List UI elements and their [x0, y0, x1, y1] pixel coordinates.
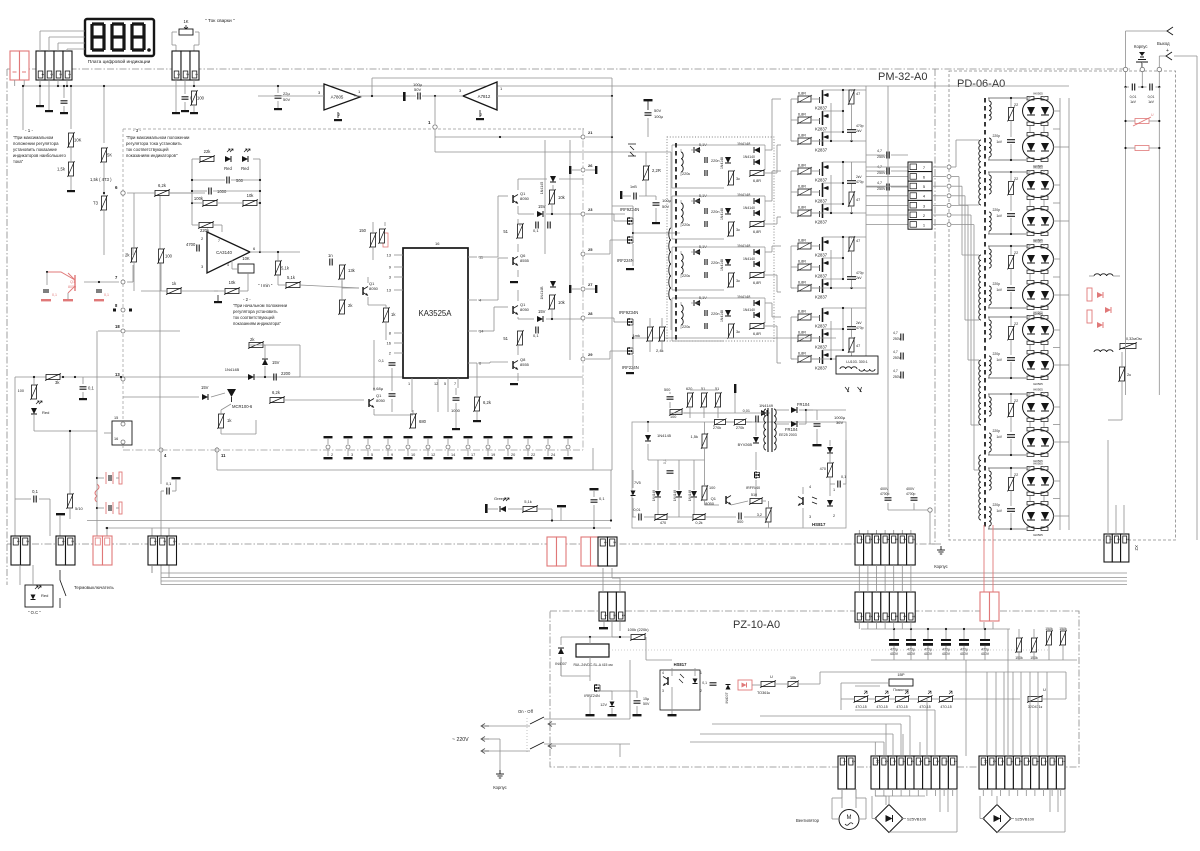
svg-text:0,1: 0,1	[88, 386, 94, 391]
svg-text:17: 17	[471, 453, 475, 457]
svg-text:28: 28	[588, 311, 593, 316]
svg-text:On - Off: On - Off	[518, 709, 534, 714]
svg-text:0,01: 0,01	[743, 409, 750, 413]
svg-text:HS817: HS817	[812, 522, 826, 527]
svg-text:2: 2	[612, 542, 616, 544]
svg-text:K2837: K2837	[815, 253, 828, 258]
svg-text:22k: 22k	[204, 149, 212, 154]
svg-text:100: 100	[18, 389, 24, 393]
svg-text:1nB: 1nB	[630, 185, 637, 189]
svg-text:4: 4	[809, 485, 811, 489]
svg-text:BYV26B: BYV26B	[738, 443, 753, 447]
svg-text:8050: 8050	[705, 501, 715, 506]
svg-text:6,8R: 6,8R	[798, 206, 806, 210]
svg-text:установить показание: установить показание	[13, 147, 58, 152]
svg-text:3: 3	[172, 541, 176, 543]
svg-text:12: 12	[434, 382, 438, 386]
svg-text:IH0505: IH0505	[1033, 382, 1043, 386]
svg-text:250V: 250V	[893, 375, 902, 379]
svg-text:22: 22	[1014, 177, 1018, 181]
svg-text:K2837: K2837	[815, 199, 828, 204]
svg-text:10k: 10k	[247, 193, 255, 198]
svg-text:1: 1	[1108, 539, 1112, 541]
svg-text:ТЗ: ТЗ	[93, 201, 99, 206]
svg-text:220n: 220n	[711, 159, 719, 163]
svg-text:3к: 3к	[736, 330, 740, 334]
svg-text:IH0505: IH0505	[1033, 462, 1043, 466]
svg-text:16: 16	[435, 241, 440, 246]
svg-text:13: 13	[387, 253, 392, 258]
svg-text:1: 1	[195, 74, 199, 76]
svg-text:3: 3	[877, 616, 881, 618]
svg-text:M: M	[847, 815, 852, 821]
svg-text:2: 2	[700, 689, 702, 693]
svg-text:22: 22	[1014, 399, 1018, 403]
svg-text:220n: 220n	[711, 210, 719, 214]
svg-text:220к: 220к	[682, 223, 690, 227]
svg-text:21: 21	[588, 130, 593, 135]
svg-text:IRF224N: IRF224N	[622, 365, 639, 370]
svg-text:400V: 400V	[906, 487, 915, 491]
svg-text:3: 3	[1044, 761, 1048, 763]
svg-text:8: 8	[893, 761, 897, 763]
svg-text:220p: 220p	[992, 503, 1000, 507]
svg-text:1кV: 1кV	[1130, 100, 1136, 104]
svg-text:220p: 220p	[992, 282, 1000, 286]
svg-text:2кV: 2кV	[856, 276, 862, 280]
svg-text:1,5k ( 4ТЗ ): 1,5k ( 4ТЗ )	[90, 177, 112, 182]
svg-text:2: 2	[25, 541, 29, 543]
svg-text:50V: 50V	[643, 702, 650, 706]
svg-text:1кV: 1кV	[996, 214, 1002, 218]
svg-text:2: 2	[612, 615, 616, 617]
svg-text:1кV: 1кV	[996, 140, 1002, 144]
svg-text:1: 1	[408, 382, 410, 386]
svg-text:7: 7	[218, 239, 220, 243]
svg-text:IRF9Z34N: IRF9Z34N	[619, 310, 638, 315]
svg-text:8050: 8050	[520, 196, 530, 201]
svg-text:47О-15: 47О-15	[876, 705, 887, 709]
svg-text:13k: 13k	[348, 268, 356, 273]
svg-text:IH0505: IH0505	[1033, 166, 1043, 170]
svg-text:1N4148: 1N4148	[720, 157, 724, 169]
svg-text:6,8R: 6,8R	[798, 310, 806, 314]
svg-text:Корпус: Корпус	[1134, 44, 1148, 49]
svg-text:0,32мОм: 0,32мОм	[1126, 337, 1142, 341]
svg-text:27: 27	[588, 282, 593, 287]
svg-text:1N4140: 1N4140	[743, 155, 755, 159]
svg-text:IRF224N: IRF224N	[617, 258, 634, 263]
svg-text:500: 500	[236, 178, 244, 183]
svg-text:3: 3	[1125, 539, 1129, 541]
svg-text:1кV: 1кV	[996, 509, 1002, 513]
svg-text:1: 1	[860, 616, 864, 618]
svg-text:регулятора тока установить: регулятора тока установить	[126, 141, 182, 146]
svg-text:3к: 3к	[736, 177, 740, 181]
svg-text:6,8R: 6,8R	[753, 230, 761, 234]
svg-text:47: 47	[856, 239, 860, 243]
svg-text:47О-15: 47О-15	[896, 705, 907, 709]
svg-text:6,8R: 6,8R	[798, 260, 806, 264]
svg-text:6,8R: 6,8R	[798, 281, 806, 285]
svg-text:270k: 270k	[736, 426, 744, 430]
svg-text:ток соответствующей: ток соответствующей	[126, 147, 169, 152]
svg-text:7: 7	[454, 382, 456, 386]
svg-text:6,2k: 6,2k	[483, 400, 492, 405]
svg-text:K2837: K2837	[815, 324, 828, 329]
svg-text:220p: 220p	[992, 352, 1000, 356]
svg-text:8: 8	[1001, 761, 1005, 763]
svg-text:250V: 250V	[877, 187, 886, 191]
svg-text:1N4148: 1N4148	[720, 310, 724, 322]
svg-text:10: 10	[876, 760, 880, 764]
svg-text:250V: 250V	[877, 171, 886, 175]
svg-text:6,8R: 6,8R	[798, 134, 806, 138]
svg-text:Red: Red	[241, 166, 249, 171]
svg-text:0,1: 0,1	[166, 482, 171, 486]
svg-text:0,2k: 0,2k	[695, 521, 702, 525]
svg-text:47О-15: 47О-15	[919, 705, 930, 709]
svg-text:220к: 220к	[682, 274, 690, 278]
svg-text:7: 7	[1009, 761, 1013, 763]
svg-text:3к: 3к	[736, 228, 740, 232]
svg-text:- 1 -: - 1 -	[25, 128, 34, 133]
svg-text:1N4149: 1N4149	[759, 403, 774, 408]
svg-text:4: 4	[885, 616, 889, 618]
svg-text:8555: 8555	[520, 258, 530, 263]
svg-text:"При максимальном положении: "При максимальном положении	[126, 135, 190, 140]
svg-text:RUL-24VDC-SL-A 415 ом: RUL-24VDC-SL-A 415 ом	[573, 663, 613, 667]
svg-text:10K: 10K	[74, 138, 82, 143]
svg-text:470p: 470p	[856, 180, 864, 184]
svg-text:3: 3	[351, 453, 353, 457]
svg-text:показаниям индикаторов": показаниям индикаторов"	[126, 153, 178, 158]
svg-text:10k: 10k	[790, 676, 796, 680]
svg-text:8050: 8050	[520, 307, 530, 312]
svg-text:- 2 -: - 2 -	[243, 297, 251, 302]
svg-text:4700: 4700	[186, 242, 196, 247]
svg-text:0,1: 0,1	[533, 333, 539, 338]
svg-text:6,8R: 6,8R	[798, 92, 806, 96]
svg-text:2кV: 2кV	[856, 175, 862, 179]
svg-text:Red: Red	[41, 593, 48, 598]
svg-text:47: 47	[856, 198, 860, 202]
svg-text:47: 47	[856, 344, 860, 348]
svg-text:0,01: 0,01	[634, 508, 641, 512]
svg-text:100: 100	[709, 486, 715, 490]
svg-text:3к: 3к	[736, 279, 740, 283]
svg-text:"При начальном положении: "При начальном положении	[233, 303, 288, 308]
svg-text:50V: 50V	[662, 204, 669, 209]
svg-text:0,1: 0,1	[378, 358, 384, 363]
svg-text:5/10: 5/10	[75, 506, 84, 511]
svg-text:0,1: 0,1	[32, 489, 38, 494]
svg-text:220p: 220p	[992, 208, 1000, 212]
svg-text:U: U	[1043, 687, 1046, 692]
svg-text:470p: 470p	[856, 124, 864, 128]
svg-text:25: 25	[588, 247, 593, 252]
svg-text:~ 220V: ~ 220V	[452, 737, 469, 743]
svg-text:6: 6	[910, 761, 914, 763]
svg-text:IRFR/40: IRFR/40	[746, 486, 760, 490]
svg-text:2: 2	[868, 539, 872, 541]
svg-text:1N4148: 1N4148	[720, 208, 724, 220]
svg-text:Позистор: Позистор	[893, 688, 909, 692]
svg-text:2: 2	[944, 761, 948, 763]
svg-text:150: 150	[359, 228, 367, 233]
svg-text:22: 22	[1014, 103, 1018, 107]
svg-text:3: 3	[809, 515, 811, 519]
svg-text:3: 3	[936, 761, 940, 763]
svg-text:6,8R: 6,8R	[753, 281, 761, 285]
svg-text:9: 9	[884, 761, 888, 763]
svg-text:K2837: K2837	[815, 274, 828, 279]
svg-text:4,7: 4,7	[893, 369, 898, 373]
svg-text:1000: 1000	[217, 189, 227, 194]
svg-text:15V: 15V	[272, 360, 280, 365]
svg-text:220n: 220n	[711, 261, 719, 265]
svg-text:10k: 10k	[558, 195, 566, 200]
svg-text:47О-15: 47О-15	[855, 705, 866, 709]
svg-text:2,4k: 2,4k	[656, 348, 664, 353]
svg-text:1N4148: 1N4148	[737, 193, 750, 197]
svg-text:A7812: A7812	[478, 94, 491, 99]
svg-text:5,1k: 5,1k	[287, 275, 296, 280]
svg-text:51: 51	[503, 336, 508, 341]
svg-text:500: 500	[737, 520, 743, 524]
svg-text:100: 100	[197, 96, 205, 101]
svg-text:1: 1	[700, 671, 702, 675]
svg-text:K2837: K2837	[815, 295, 828, 300]
svg-text:2: 2	[868, 616, 872, 618]
svg-text:5К: 5К	[107, 153, 112, 158]
svg-text:4,7: 4,7	[877, 181, 882, 185]
svg-text:S25VB100: S25VB100	[1015, 817, 1035, 822]
svg-text:0,1: 0,1	[702, 681, 707, 685]
svg-text:3,2: 3,2	[757, 513, 762, 517]
svg-text:23: 23	[588, 207, 593, 212]
svg-text:1,5k: 1,5k	[57, 167, 66, 172]
svg-text:14: 14	[451, 453, 455, 457]
svg-text:IH0505: IH0505	[1033, 240, 1043, 244]
svg-text:100: 100	[670, 415, 676, 419]
svg-text:FR104: FR104	[797, 402, 810, 407]
svg-text:7: 7	[911, 539, 915, 541]
svg-text:6: 6	[903, 616, 907, 618]
svg-text:6,8R: 6,8R	[798, 239, 806, 243]
svg-text:10: 10	[984, 760, 988, 764]
svg-text:IH0505: IH0505	[1033, 533, 1043, 537]
svg-text:ЕЕ25 2003: ЕЕ25 2003	[779, 433, 797, 437]
svg-text:2: 2	[331, 453, 333, 457]
svg-text:2: 2	[162, 541, 166, 543]
svg-text:MCR100-6: MCR100-6	[232, 404, 253, 409]
svg-text:3: 3	[50, 74, 54, 76]
svg-text:12: 12	[431, 453, 435, 457]
svg-text:Плата цифровой индикации: Плата цифровой индикации	[88, 58, 151, 65]
svg-text:220n: 220n	[711, 312, 719, 316]
svg-text:1K: 1K	[183, 19, 188, 24]
svg-text:U: U	[770, 674, 773, 679]
svg-text:1кV: 1кV	[996, 288, 1002, 292]
svg-text:100: 100	[165, 254, 173, 259]
svg-text:4,7: 4,7	[877, 149, 882, 153]
svg-text:1n: 1n	[328, 253, 333, 258]
svg-text:4: 4	[927, 761, 931, 763]
svg-text:4: 4	[662, 671, 664, 675]
svg-text:6,2k: 6,2k	[272, 390, 281, 395]
svg-text:K2837: K2837	[815, 148, 828, 153]
svg-text:4700p: 4700p	[906, 492, 916, 496]
svg-text:13: 13	[115, 372, 120, 377]
svg-text:9: 9	[391, 453, 393, 457]
svg-text:1кV: 1кV	[996, 435, 1002, 439]
svg-text:" Ток сварки ": " Ток сварки "	[205, 18, 235, 24]
svg-text:220к: 220к	[682, 172, 690, 176]
svg-text:" O.C ": " O.C "	[28, 610, 41, 615]
svg-text:1: 1	[68, 74, 72, 76]
svg-text:6,2k: 6,2k	[158, 183, 167, 188]
svg-text:510: 510	[751, 493, 757, 497]
svg-text:S25VB100: S25VB100	[907, 817, 927, 822]
svg-text:10k: 10k	[558, 300, 566, 305]
svg-text:250V: 250V	[877, 155, 886, 159]
svg-text:13: 13	[387, 288, 392, 293]
svg-text:IN4007: IN4007	[725, 692, 729, 703]
svg-text:X2: X2	[1134, 545, 1139, 551]
svg-text:2кV: 2кV	[856, 321, 862, 325]
svg-text:6: 6	[1018, 761, 1022, 763]
svg-text:220p: 220p	[992, 134, 1000, 138]
svg-text:19: 19	[491, 453, 495, 457]
svg-text:1N4148: 1N4148	[737, 244, 750, 248]
svg-text:50V: 50V	[283, 97, 290, 102]
svg-text:47О-15: 47О-15	[940, 705, 951, 709]
svg-text:1N4148: 1N4148	[652, 490, 656, 501]
svg-text:1: 1	[953, 761, 957, 763]
svg-text:6,8R: 6,8R	[798, 164, 806, 168]
svg-text:5: 5	[371, 453, 373, 457]
svg-text:Термовыключатель: Термовыключатель	[74, 585, 114, 590]
svg-text:1,5k: 1,5k	[690, 434, 698, 439]
svg-text:5,1k: 5,1k	[281, 266, 290, 271]
svg-text:50V: 50V	[414, 87, 421, 92]
svg-text:1N4145: 1N4145	[540, 182, 544, 195]
svg-text:ток соответствующей: ток соответствующей	[233, 315, 275, 320]
svg-text:0,1: 0,1	[533, 228, 539, 233]
svg-text:0,01: 0,01	[1130, 95, 1137, 99]
svg-text:16: 16	[387, 341, 392, 346]
svg-text:10k: 10k	[229, 280, 237, 285]
svg-text:12V: 12V	[600, 703, 607, 707]
svg-text:2: 2	[186, 74, 190, 76]
svg-text:1: 1	[860, 539, 864, 541]
svg-text:K2837: K2837	[815, 178, 828, 183]
svg-text:0,01: 0,01	[1148, 95, 1155, 99]
svg-text:0,68µ: 0,68µ	[373, 386, 384, 391]
svg-text:20: 20	[511, 453, 515, 457]
svg-text:2200: 2200	[281, 371, 291, 376]
svg-text:" I min ": " I min "	[258, 283, 273, 288]
svg-text:16: 16	[114, 437, 118, 441]
svg-text:7V5: 7V5	[634, 481, 641, 485]
svg-text:K2837: K2837	[815, 345, 828, 350]
svg-text:6,8R: 6,8R	[798, 113, 806, 117]
svg-text:0,1: 0,1	[841, 475, 846, 479]
svg-text:3: 3	[621, 615, 625, 617]
svg-text:270k: 270k	[713, 426, 721, 430]
svg-text:15µ: 15µ	[643, 697, 649, 701]
svg-text:36V: 36V	[836, 420, 843, 425]
svg-text:0,1: 0,1	[599, 496, 605, 501]
svg-text:5: 5	[919, 761, 923, 763]
svg-text:Корпус: Корпус	[493, 785, 507, 790]
svg-text:8050: 8050	[68, 285, 76, 289]
svg-text:K2837: K2837	[815, 366, 828, 371]
svg-text:22: 22	[1014, 251, 1018, 255]
svg-text:2: 2	[833, 514, 835, 518]
svg-text:1N4148: 1N4148	[688, 490, 692, 501]
svg-text:1N4140: 1N4140	[743, 206, 755, 210]
svg-text:ТО361к: ТО361к	[757, 691, 770, 695]
svg-text:Red: Red	[224, 166, 232, 171]
svg-text:15V: 15V	[201, 385, 209, 390]
svg-text:470: 470	[660, 521, 666, 525]
svg-text:0,1: 0,1	[104, 293, 109, 297]
svg-text:7: 7	[911, 616, 915, 618]
svg-text:1N4148: 1N4148	[720, 259, 724, 271]
svg-text:6,8R: 6,8R	[753, 179, 761, 183]
svg-text:15: 15	[114, 416, 118, 420]
svg-text:18: 18	[115, 324, 120, 329]
svg-text:PD-06-A0: PD-06-A0	[957, 78, 1005, 90]
svg-text:LU103. 300:1: LU103. 300:1	[846, 360, 868, 364]
svg-text:1ВР: 1ВР	[897, 673, 905, 677]
svg-text:1N4148: 1N4148	[737, 142, 750, 146]
svg-text:3: 3	[177, 74, 181, 76]
svg-text:1: 1	[843, 761, 847, 763]
svg-text:680: 680	[419, 419, 427, 424]
svg-text:K2837: K2837	[815, 106, 828, 111]
svg-text:1N4140: 1N4140	[743, 257, 755, 261]
svg-text:1: 1	[1061, 761, 1065, 763]
svg-text:1: 1	[16, 541, 20, 543]
svg-text:26: 26	[588, 163, 593, 168]
svg-text:показаниям индикатора": показаниям индикатора"	[233, 321, 281, 326]
svg-text:2: 2	[70, 541, 74, 543]
svg-text:K2837: K2837	[815, 127, 828, 132]
svg-text:470: 470	[820, 467, 826, 471]
svg-text:4,7: 4,7	[893, 331, 898, 335]
svg-text:IH0505: IH0505	[1033, 92, 1043, 96]
svg-text:22: 22	[531, 453, 535, 457]
svg-text:1N414B: 1N414B	[225, 367, 240, 372]
svg-text:PM-32-A0: PM-32-A0	[878, 71, 928, 83]
svg-text:Выход: Выход	[1157, 41, 1170, 46]
svg-text:Корпус: Корпус	[934, 564, 948, 569]
svg-text:15V: 15V	[538, 309, 546, 314]
svg-text:470p: 470p	[856, 326, 864, 330]
svg-text:1: 1	[61, 541, 65, 543]
svg-text:6,8R: 6,8R	[798, 331, 806, 335]
svg-text:4: 4	[227, 263, 229, 267]
svg-text:1кV: 1кV	[1148, 100, 1154, 104]
svg-text:5: 5	[1027, 761, 1031, 763]
svg-text:5: 5	[894, 616, 898, 618]
svg-text:100k (220k): 100k (220k)	[627, 627, 649, 632]
svg-text:IRFZ24N: IRFZ24N	[584, 694, 600, 698]
svg-text:22: 22	[1014, 322, 1018, 326]
